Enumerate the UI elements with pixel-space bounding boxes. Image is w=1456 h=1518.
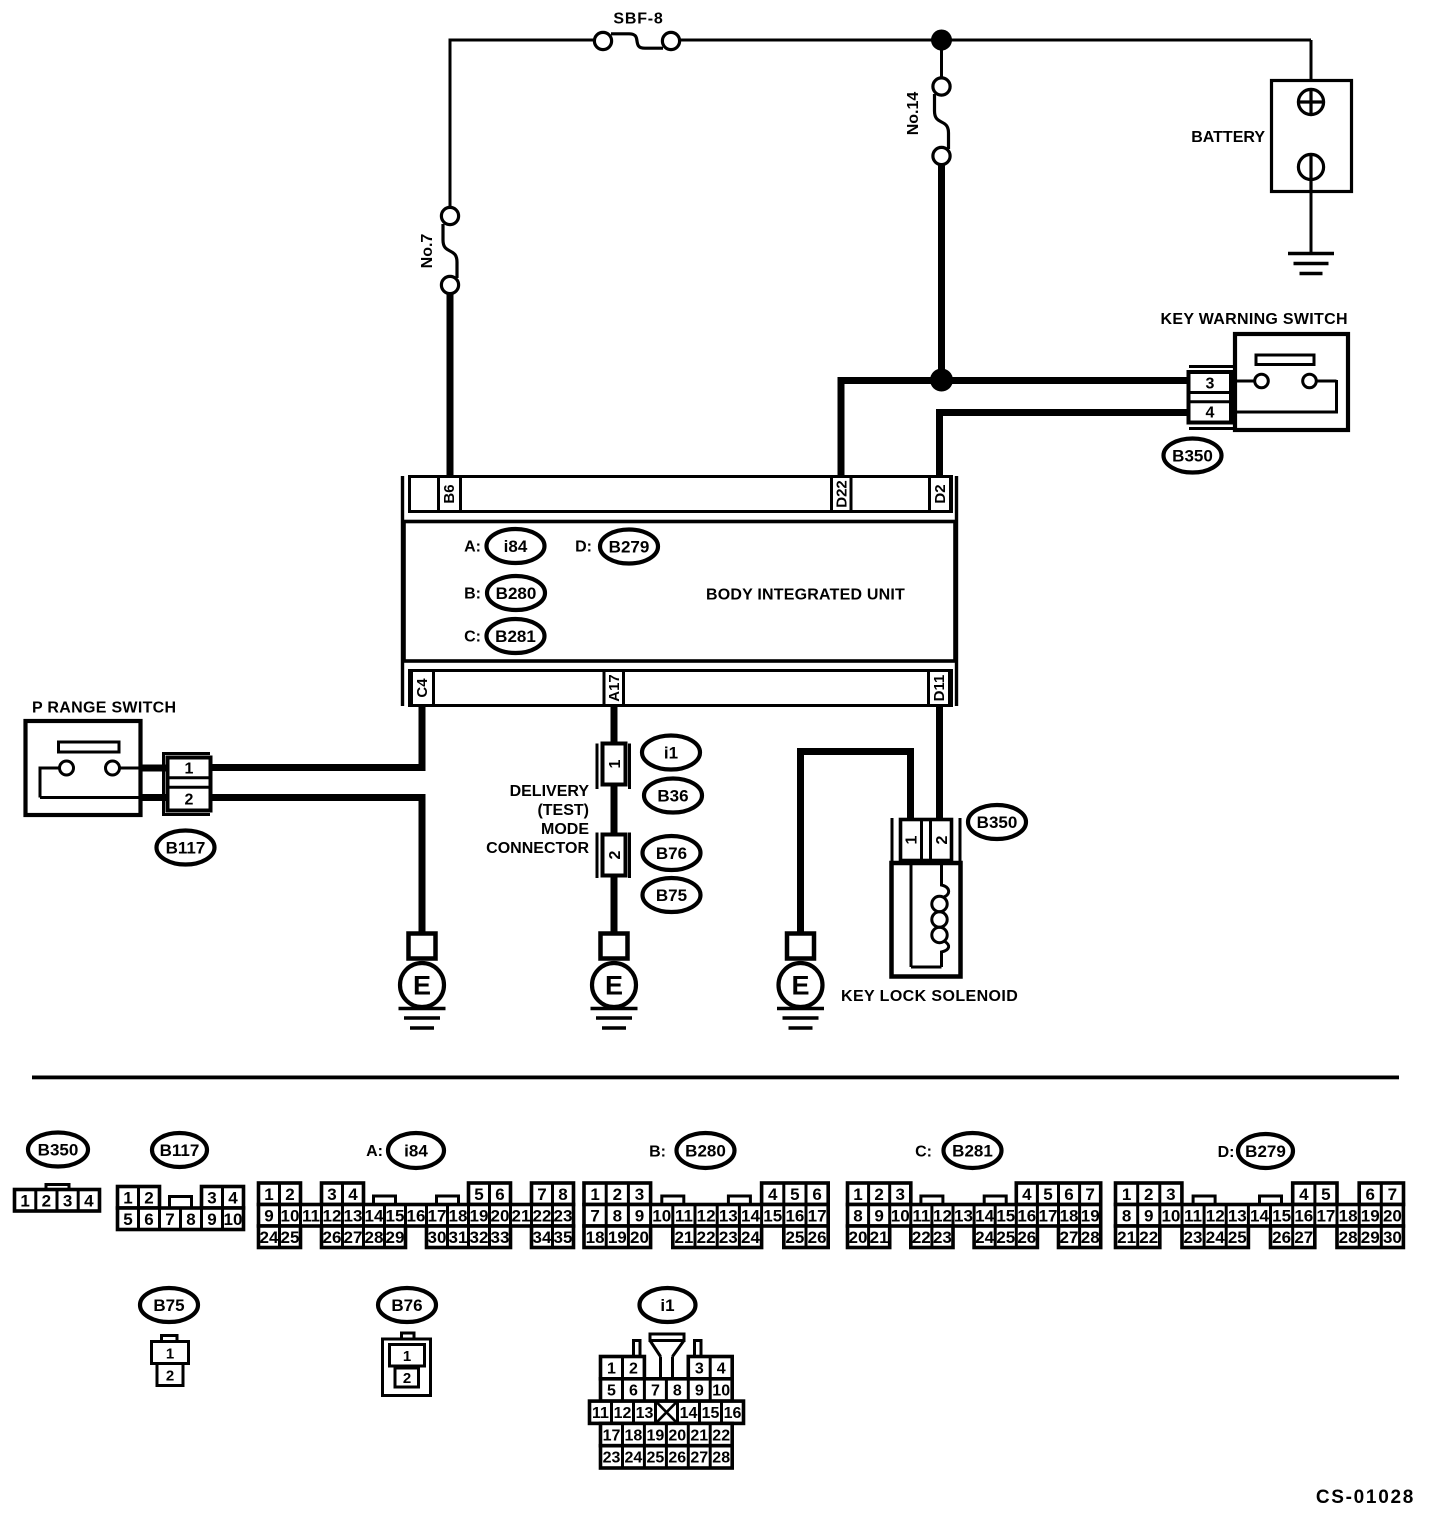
connector B350 (key warning switch) pins 3/4 [1189, 367, 1236, 429]
svg-text:(TEST): (TEST) [537, 802, 589, 819]
svg-text:A17: A17 [606, 674, 623, 702]
ground E (delivery connector) [591, 934, 638, 1029]
svg-text:8: 8 [853, 1206, 862, 1225]
svg-text:30: 30 [1383, 1228, 1402, 1247]
svg-text:14: 14 [680, 1405, 698, 1422]
wire: battery negative to ground [1310, 191, 1313, 253]
svg-text:13: 13 [954, 1206, 973, 1225]
node: junction feeding key warning switch pin 3 and D22 [930, 369, 953, 392]
svg-text:10: 10 [1161, 1206, 1180, 1225]
svg-text:2: 2 [144, 1188, 153, 1207]
svg-text:6: 6 [495, 1185, 504, 1204]
svg-text:6: 6 [144, 1210, 153, 1229]
svg-text:4: 4 [717, 1360, 726, 1377]
svg-text:6: 6 [1365, 1185, 1374, 1204]
svg-text:32: 32 [470, 1228, 489, 1247]
connector B117 pinout grid [118, 1187, 244, 1230]
svg-text:26: 26 [1272, 1228, 1291, 1247]
wire: between delivery connector pins [611, 783, 618, 836]
p range switch [26, 721, 141, 815]
wire: P range switch pin 2 to ground [207, 794, 426, 801]
svg-text:10: 10 [281, 1206, 300, 1225]
svg-text:27: 27 [344, 1228, 363, 1247]
svg-text:26: 26 [323, 1228, 342, 1247]
wire: left vertical to fuse No.7 [449, 40, 452, 208]
svg-text:1: 1 [166, 1346, 174, 1363]
svg-text:34: 34 [533, 1228, 552, 1247]
svg-text:22: 22 [912, 1228, 931, 1247]
svg-text:i1: i1 [664, 744, 678, 763]
connector callout B350 [1164, 439, 1222, 473]
svg-text:10: 10 [891, 1206, 910, 1225]
pin C4 [412, 671, 434, 706]
svg-text:1: 1 [20, 1191, 29, 1210]
svg-text:23: 23 [1184, 1228, 1203, 1247]
ground E (key lock solenoid) [777, 934, 824, 1029]
svg-text:1: 1 [403, 1348, 411, 1365]
svg-text:B280: B280 [685, 1142, 726, 1161]
wire: delivery connector pin 2 to ground [611, 874, 618, 934]
svg-text:E: E [791, 971, 809, 1001]
svg-text:2: 2 [629, 1360, 638, 1377]
svg-text:8: 8 [613, 1206, 622, 1225]
ground E (p range switch) [399, 934, 446, 1029]
svg-text:8: 8 [1122, 1206, 1131, 1225]
svg-text:9: 9 [1144, 1206, 1153, 1225]
svg-text:28: 28 [365, 1228, 384, 1247]
svg-text:1: 1 [1122, 1185, 1131, 1204]
svg-text:No.14: No.14 [905, 92, 922, 136]
connector B76 pinout grid [383, 1333, 431, 1396]
svg-text:28: 28 [1339, 1228, 1358, 1247]
svg-text:18: 18 [625, 1427, 643, 1444]
svg-text:4: 4 [1206, 404, 1215, 421]
svg-text:20: 20 [849, 1228, 868, 1247]
svg-text:12: 12 [323, 1206, 342, 1225]
svg-text:9: 9 [207, 1210, 216, 1229]
svg-text:C:: C: [915, 1144, 932, 1161]
fuse No.7 [441, 207, 458, 293]
svg-text:10: 10 [224, 1210, 243, 1229]
svg-text:7: 7 [1388, 1185, 1397, 1204]
svg-text:7: 7 [1085, 1185, 1094, 1204]
svg-text:CONNECTOR: CONNECTOR [486, 840, 589, 857]
svg-text:27: 27 [1060, 1228, 1079, 1247]
svg-text:BODY INTEGRATED UNIT: BODY INTEGRATED UNIT [706, 587, 905, 604]
wire: horizontal key warning switch pin 4 branch [936, 409, 1190, 416]
svg-text:B36: B36 [657, 787, 688, 806]
svg-text:18: 18 [1339, 1206, 1358, 1225]
svg-text:2: 2 [1144, 1185, 1153, 1204]
svg-text:2: 2 [166, 1368, 174, 1385]
svg-text:B350: B350 [1172, 447, 1213, 466]
pin D22 [832, 477, 852, 512]
connector callout A: i84 (pinout) [366, 1143, 383, 1160]
svg-text:19: 19 [470, 1206, 489, 1225]
svg-text:21: 21 [674, 1228, 693, 1247]
svg-text:B280: B280 [496, 584, 537, 603]
svg-text:D11: D11 [931, 675, 948, 702]
connector B281 pinout grid [848, 1183, 1101, 1248]
svg-text:19: 19 [1081, 1206, 1100, 1225]
svg-text:2: 2 [185, 791, 194, 808]
svg-text:16: 16 [407, 1206, 426, 1225]
svg-text:B76: B76 [656, 844, 687, 863]
svg-text:12: 12 [697, 1206, 716, 1225]
svg-text:1: 1 [123, 1188, 132, 1207]
svg-text:B75: B75 [656, 886, 687, 905]
svg-text:13: 13 [636, 1405, 654, 1422]
svg-text:6: 6 [629, 1383, 638, 1400]
svg-text:27: 27 [1294, 1228, 1313, 1247]
svg-text:12: 12 [933, 1206, 952, 1225]
svg-text:4: 4 [84, 1191, 94, 1210]
connector callout B76 [643, 836, 701, 870]
connector callout B75 [643, 878, 701, 912]
body integrated unit [403, 476, 957, 706]
delivery (test) mode connector pin 2 [597, 833, 630, 879]
svg-text:KEY WARNING SWITCH: KEY WARNING SWITCH [1161, 311, 1348, 328]
svg-text:3: 3 [635, 1185, 644, 1204]
svg-text:6: 6 [812, 1185, 821, 1204]
svg-text:25: 25 [647, 1450, 665, 1467]
connector B350 pinout grid [15, 1185, 100, 1212]
connector B280 pinout grid [584, 1183, 828, 1248]
svg-text:23: 23 [603, 1450, 621, 1467]
svg-text:11: 11 [675, 1206, 693, 1225]
svg-text:21: 21 [1117, 1228, 1136, 1247]
svg-text:12: 12 [1206, 1206, 1225, 1225]
svg-text:26: 26 [808, 1228, 827, 1247]
svg-text:24: 24 [741, 1228, 760, 1247]
svg-text:B117: B117 [166, 839, 206, 858]
svg-text:A:: A: [366, 1143, 383, 1160]
svg-text:2: 2 [42, 1191, 51, 1210]
svg-text:20: 20 [491, 1206, 510, 1225]
wire: D11 down to key lock solenoid pin 2 [936, 707, 943, 821]
svg-text:B279: B279 [1245, 1142, 1286, 1161]
wire: vertical down to D22 [838, 380, 845, 476]
svg-text:4: 4 [768, 1185, 778, 1204]
svg-text:29: 29 [386, 1228, 405, 1247]
svg-text:17: 17 [428, 1206, 447, 1225]
connector callout B350 [968, 805, 1026, 839]
key warning switch [1235, 334, 1348, 430]
svg-text:9: 9 [264, 1206, 273, 1225]
ground (battery) [1288, 254, 1334, 274]
connector callout i1 [642, 736, 700, 770]
svg-text:B:: B: [649, 1144, 666, 1161]
svg-text:8: 8 [186, 1210, 195, 1229]
svg-text:9: 9 [874, 1206, 883, 1225]
svg-text:10: 10 [712, 1383, 730, 1400]
svg-text:B350: B350 [38, 1141, 79, 1160]
connector callout C: B281 (pinout) [915, 1144, 932, 1161]
svg-text:1: 1 [903, 835, 920, 844]
wire: vertical to battery [1310, 40, 1313, 81]
delivery (test) mode connector pin 1 [597, 744, 630, 790]
svg-text:i1: i1 [660, 1296, 674, 1315]
svg-text:3: 3 [695, 1360, 704, 1377]
connector B117 (P range switch) pins 1/2 [162, 752, 211, 816]
wire: key lock solenoid pin 1 up, over and down to ground [907, 748, 914, 821]
svg-text:5: 5 [607, 1383, 616, 1400]
svg-text:23: 23 [933, 1228, 952, 1247]
divider line [32, 1076, 1399, 1080]
svg-text:15: 15 [996, 1206, 1015, 1225]
connector i1 pinout grid [590, 1334, 744, 1468]
svg-text:24: 24 [1206, 1228, 1225, 1247]
svg-text:i84: i84 [504, 537, 528, 556]
wire: vertical down to D2 [936, 409, 943, 476]
svg-text:DELIVERY: DELIVERY [510, 783, 590, 800]
connector callout C: B281 [464, 629, 481, 646]
svg-text:7: 7 [537, 1185, 546, 1204]
svg-text:35: 35 [554, 1228, 573, 1247]
svg-text:4: 4 [228, 1188, 238, 1207]
svg-text:20: 20 [668, 1427, 686, 1444]
svg-text:24: 24 [975, 1228, 994, 1247]
wire: top horizontal battery feed (right of fuse SBF-8) [677, 39, 1311, 42]
svg-text:21: 21 [690, 1427, 708, 1444]
wire: No.14 fuse down to junction node [938, 164, 945, 380]
pin A17 [604, 671, 624, 706]
connector callout B: B280 [464, 586, 481, 603]
svg-text:CS-01028: CS-01028 [1316, 1487, 1415, 1508]
svg-text:KEY LOCK SOLENOID: KEY LOCK SOLENOID [841, 988, 1018, 1005]
svg-text:28: 28 [1081, 1228, 1100, 1247]
svg-text:17: 17 [1039, 1206, 1058, 1225]
connector callout B76 (pinout) [378, 1288, 436, 1322]
svg-text:19: 19 [608, 1228, 627, 1247]
fuse SBF-8 [594, 32, 679, 49]
svg-text:25: 25 [996, 1228, 1015, 1247]
svg-text:29: 29 [1361, 1228, 1380, 1247]
svg-text:7: 7 [590, 1206, 599, 1225]
svg-text:19: 19 [647, 1427, 665, 1444]
svg-text:28: 28 [712, 1450, 730, 1467]
svg-text:10: 10 [652, 1206, 671, 1225]
svg-text:18: 18 [1060, 1206, 1079, 1225]
pin B6 [439, 477, 461, 512]
svg-text:B76: B76 [391, 1296, 422, 1315]
svg-text:21: 21 [870, 1228, 889, 1247]
svg-text:C:: C: [464, 629, 481, 646]
wire: A17 down to delivery connector pin 1 [611, 707, 618, 745]
svg-text:1: 1 [185, 760, 194, 777]
wire: vertical to fuse No.14 [940, 40, 943, 79]
svg-text:2: 2 [613, 1185, 622, 1204]
connector callout B117 [157, 831, 215, 865]
svg-text:19: 19 [1361, 1206, 1380, 1225]
svg-text:20: 20 [1383, 1206, 1402, 1225]
svg-text:22: 22 [1139, 1228, 1158, 1247]
pin D2 [930, 477, 951, 512]
svg-text:6: 6 [1064, 1185, 1073, 1204]
svg-text:24: 24 [260, 1228, 279, 1247]
connector callout i1 (pinout) [640, 1288, 696, 1322]
svg-text:D22: D22 [834, 480, 851, 508]
svg-text:P RANGE SWITCH: P RANGE SWITCH [32, 700, 176, 717]
svg-text:2: 2 [403, 1370, 411, 1387]
wire: top horizontal battery feed (left of fuse SBF-8) [449, 39, 598, 42]
svg-text:3: 3 [895, 1185, 904, 1204]
label: DELIVERY (TEST) MODE CONNECTOR [486, 783, 589, 857]
svg-text:5: 5 [1321, 1185, 1330, 1204]
svg-text:11: 11 [592, 1405, 609, 1422]
connector B279 pinout grid [1116, 1183, 1404, 1248]
svg-text:D:: D: [575, 539, 592, 556]
svg-text:1: 1 [590, 1185, 599, 1204]
svg-text:14: 14 [741, 1206, 760, 1225]
svg-text:4: 4 [348, 1185, 358, 1204]
svg-text:2: 2 [934, 835, 951, 844]
svg-text:4: 4 [1022, 1185, 1032, 1204]
svg-text:3: 3 [207, 1188, 216, 1207]
svg-text:16: 16 [1294, 1206, 1313, 1225]
svg-text:16: 16 [785, 1206, 804, 1225]
svg-text:17: 17 [603, 1427, 621, 1444]
fuse No.14 [933, 78, 950, 165]
svg-text:7: 7 [651, 1383, 660, 1400]
svg-text:B281: B281 [952, 1142, 993, 1161]
wire: horizontal to key warning switch pin 3 [838, 377, 1191, 384]
battery [1272, 81, 1352, 192]
svg-text:B:: B: [464, 586, 481, 603]
svg-text:22: 22 [533, 1206, 552, 1225]
svg-text:22: 22 [697, 1228, 716, 1247]
svg-text:E: E [413, 971, 431, 1001]
connector callout B75 (pinout) [140, 1288, 198, 1322]
svg-text:21: 21 [512, 1206, 531, 1225]
svg-text:2: 2 [607, 850, 624, 859]
svg-text:5: 5 [474, 1185, 483, 1204]
svg-text:22: 22 [712, 1427, 730, 1444]
connector callout B36 [644, 779, 702, 813]
svg-text:11: 11 [1184, 1206, 1202, 1225]
pin D11 [929, 671, 950, 706]
svg-text:5: 5 [123, 1210, 132, 1229]
svg-text:A:: A: [464, 539, 481, 556]
svg-text:5: 5 [1043, 1185, 1052, 1204]
svg-text:8: 8 [558, 1185, 567, 1204]
svg-text:33: 33 [491, 1228, 510, 1247]
svg-text:20: 20 [630, 1228, 649, 1247]
svg-text:24: 24 [625, 1450, 643, 1467]
svg-text:9: 9 [695, 1383, 704, 1400]
svg-text:26: 26 [668, 1450, 686, 1467]
connector callout B350 (pinout) [28, 1133, 88, 1167]
svg-text:13: 13 [1228, 1206, 1247, 1225]
svg-text:25: 25 [281, 1228, 300, 1247]
key lock solenoid [892, 861, 961, 977]
svg-text:16: 16 [1017, 1206, 1036, 1225]
svg-text:i84: i84 [404, 1142, 428, 1161]
svg-text:26: 26 [1017, 1228, 1036, 1247]
svg-text:14: 14 [975, 1206, 994, 1225]
connector callout B: B280 (pinout) [649, 1144, 666, 1161]
svg-text:1: 1 [607, 1360, 616, 1377]
svg-text:27: 27 [690, 1450, 708, 1467]
svg-text:B117: B117 [160, 1141, 200, 1160]
svg-text:8: 8 [673, 1383, 682, 1400]
connector B75 pinout grid [152, 1336, 189, 1386]
svg-text:B279: B279 [609, 538, 650, 557]
svg-text:D2: D2 [932, 484, 949, 503]
svg-text:7: 7 [165, 1210, 174, 1229]
svg-text:B281: B281 [495, 627, 536, 646]
svg-text:1: 1 [853, 1185, 862, 1204]
node: junction at SBF-8 feed / No.14 branch [931, 30, 952, 51]
svg-text:31: 31 [449, 1228, 468, 1247]
svg-text:16: 16 [724, 1405, 742, 1422]
svg-text:B6: B6 [441, 484, 458, 503]
svg-text:2: 2 [874, 1185, 883, 1204]
svg-text:1: 1 [264, 1185, 273, 1204]
svg-text:3: 3 [1206, 376, 1215, 393]
svg-text:D:: D: [1218, 1144, 1235, 1161]
wire: C4 down and left to P range switch pin 1 [419, 707, 426, 771]
svg-text:B350: B350 [977, 813, 1018, 832]
connector B350 (key lock solenoid) pins 1/2 [892, 818, 960, 861]
svg-text:17: 17 [808, 1206, 827, 1225]
svg-text:15: 15 [702, 1405, 720, 1422]
svg-text:23: 23 [719, 1228, 738, 1247]
svg-text:14: 14 [1250, 1206, 1269, 1225]
connector callout D: B279 (pinout) [1218, 1144, 1235, 1161]
svg-text:3: 3 [327, 1185, 336, 1204]
svg-text:15: 15 [1272, 1206, 1291, 1225]
svg-text:12: 12 [614, 1405, 632, 1422]
svg-text:25: 25 [1228, 1228, 1247, 1247]
svg-text:11: 11 [302, 1206, 320, 1225]
connector callout B117 (pinout) [152, 1133, 207, 1167]
svg-text:13: 13 [719, 1206, 738, 1225]
svg-text:13: 13 [344, 1206, 363, 1225]
svg-text:BATTERY: BATTERY [1191, 129, 1265, 146]
svg-text:C4: C4 [414, 678, 431, 698]
svg-text:15: 15 [386, 1206, 405, 1225]
wire: P range switch to connector stubs [139, 765, 172, 772]
svg-text:17: 17 [1316, 1206, 1335, 1225]
svg-text:No.7: No.7 [419, 234, 436, 269]
svg-text:SBF-8: SBF-8 [613, 11, 663, 28]
svg-text:3: 3 [63, 1191, 72, 1210]
svg-text:4: 4 [1299, 1185, 1309, 1204]
svg-text:E: E [605, 971, 623, 1001]
connector callout A: i84 [464, 539, 481, 556]
svg-text:1: 1 [607, 759, 624, 768]
svg-text:18: 18 [449, 1206, 468, 1225]
svg-text:9: 9 [635, 1206, 644, 1225]
svg-text:18: 18 [586, 1228, 605, 1247]
wire: fuse No.7 down to B6 [447, 293, 454, 476]
svg-text:MODE: MODE [541, 821, 589, 838]
connector callout D: B279 [575, 539, 592, 556]
svg-text:2: 2 [285, 1185, 294, 1204]
connector i84 pinout grid [259, 1183, 574, 1248]
svg-text:B75: B75 [153, 1296, 184, 1315]
svg-text:23: 23 [554, 1206, 573, 1225]
svg-text:25: 25 [785, 1228, 804, 1247]
svg-text:5: 5 [790, 1185, 799, 1204]
svg-text:30: 30 [428, 1228, 447, 1247]
svg-text:3: 3 [1166, 1185, 1175, 1204]
svg-text:11: 11 [912, 1206, 930, 1225]
svg-text:15: 15 [763, 1206, 782, 1225]
svg-text:14: 14 [365, 1206, 384, 1225]
